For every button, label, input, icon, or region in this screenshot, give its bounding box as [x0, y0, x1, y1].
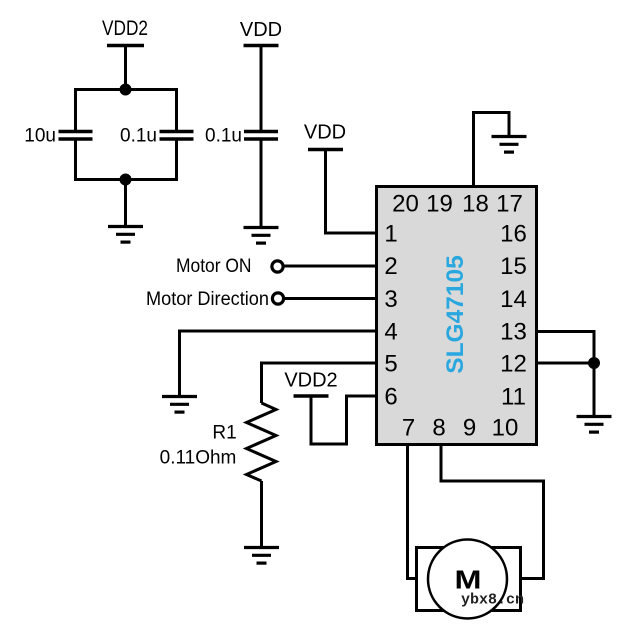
node A junction dot (top of cap loop): [120, 84, 132, 96]
wire pin 4 to ground: [180, 331, 378, 397]
svg-text:R1: R1: [212, 423, 236, 444]
power VDD bar symbol (pin 1): [308, 148, 343, 152]
svg-text:SLG47105: SLG47105: [442, 255, 469, 374]
svg-text:16: 16: [500, 221, 527, 248]
wire Motor ON to pin 2: [284, 265, 378, 268]
node C junction dot: [588, 357, 600, 369]
wire right branch lower lead: [175, 139, 178, 181]
svg-text:12: 12: [500, 351, 527, 378]
svg-text:1: 1: [384, 221, 397, 248]
wire VDD2 to pin 6: [311, 396, 377, 444]
terminal circle Motor ON: [272, 261, 283, 272]
motor M1 body rectangle: [417, 548, 521, 611]
svg-text:Motor Direction: Motor Direction: [146, 289, 269, 310]
svg-text:19: 19: [426, 191, 453, 218]
svg-text:VDD: VDD: [304, 122, 346, 144]
ground (pin 4): [162, 397, 197, 413]
wire bottom of capacitor loop: [76, 178, 177, 181]
svg-text:0.1u: 0.1u: [205, 126, 242, 147]
wire node B to ground: [124, 180, 127, 227]
wire top of capacitor loop: [76, 88, 177, 91]
node B junction dot (bottom of cap loop): [120, 174, 132, 186]
svg-text:15: 15: [500, 253, 527, 280]
power VDD2 bar symbol (pin 6): [294, 394, 329, 398]
wire resistor R1 to ground: [260, 481, 263, 548]
svg-text:10: 10: [492, 415, 519, 442]
resistor R1 zigzag: [247, 403, 277, 481]
motor M1 circle: [428, 540, 507, 619]
wire pin 5 to resistor R1: [262, 363, 378, 403]
ground (pin 18): [492, 137, 527, 153]
svg-text:ybx8.cn: ybx8.cn: [461, 592, 524, 609]
svg-text:VDD2: VDD2: [102, 16, 148, 40]
power VDD2 bar symbol: [107, 44, 144, 48]
wire pin 8 to motor: [441, 444, 544, 579]
svg-text:10u: 10u: [24, 126, 56, 147]
wire left branch lower lead: [74, 139, 77, 181]
capacitor C2 0.1u plates: [160, 130, 194, 134]
svg-text:6: 6: [384, 384, 397, 411]
svg-text:0.1u: 0.1u: [120, 126, 157, 147]
ground (pins 12/13): [577, 417, 612, 433]
svg-text:20: 20: [392, 191, 419, 218]
svg-text:9: 9: [463, 415, 476, 442]
svg-text:M: M: [455, 565, 482, 595]
svg-text:18: 18: [462, 191, 489, 218]
wire pin 7 to motor: [408, 444, 417, 579]
ground (below C3): [244, 228, 279, 244]
ground (below cap loop): [108, 227, 143, 243]
wire Motor Direction to pin 3: [284, 297, 377, 300]
wire right branch upper lead: [175, 88, 178, 132]
svg-text:17: 17: [496, 191, 523, 218]
svg-text:4: 4: [384, 319, 397, 346]
svg-text:VDD2: VDD2: [284, 370, 337, 392]
ground (below R1): [244, 548, 279, 564]
svg-text:5: 5: [384, 351, 397, 378]
svg-text:Motor ON: Motor ON: [176, 256, 252, 277]
svg-text:0.11Ohm: 0.11Ohm: [160, 448, 237, 469]
wire pin 18 to ground: [474, 113, 510, 187]
svg-text:2: 2: [384, 253, 397, 280]
svg-text:3: 3: [384, 286, 397, 313]
wire left branch upper lead: [74, 88, 77, 132]
capacitor C1 10u plates: [59, 130, 93, 134]
svg-text:13: 13: [500, 319, 527, 346]
wire VDD2 bar to node A: [124, 46, 127, 90]
wire pin 12 to node C: [537, 362, 594, 365]
wire VDD to pin 1: [326, 150, 378, 234]
svg-text:11: 11: [501, 384, 526, 411]
wire pin 13 to node C: [537, 332, 594, 364]
svg-text:8: 8: [432, 415, 445, 442]
wire capacitor C3 to ground: [260, 139, 263, 228]
op-amp/IC U1 SLG47105 body: [377, 187, 537, 445]
capacitor C3 0.1u plates: [244, 130, 278, 134]
svg-text:VDD: VDD: [240, 19, 282, 41]
wire VDD to capacitor C3: [260, 46, 263, 132]
svg-text:14: 14: [500, 286, 527, 313]
power VDD bar symbol: [244, 44, 279, 48]
wire node C to ground: [593, 363, 596, 417]
terminal circle Motor Direction: [272, 293, 283, 304]
svg-text:7: 7: [402, 415, 415, 442]
